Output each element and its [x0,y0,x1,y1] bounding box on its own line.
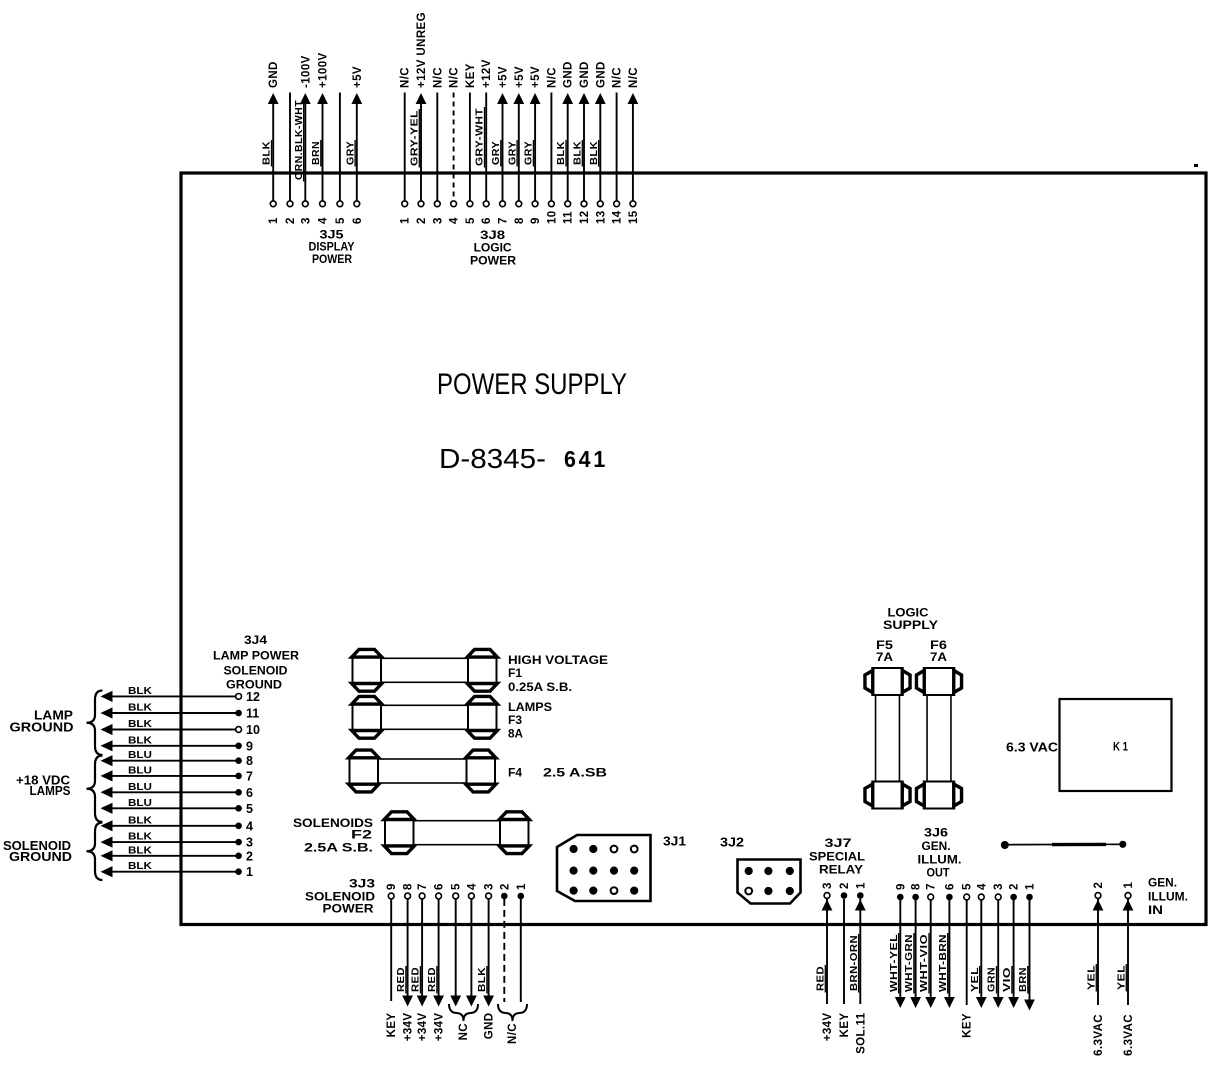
3J4 pin 3 lead (BLK) [101,831,254,850]
svg-text:6: 6 [944,883,956,890]
3J5 pin 4 lead (BRN, +100V) [310,52,330,224]
3J5 pin 1 lead (BLK, GND) [261,61,281,224]
svg-text:GROUND: GROUND [9,849,72,864]
general illumination input pin 1 lead (YEL, 6.3VAC) [1116,882,1136,1056]
svg-text:9: 9 [530,217,542,224]
svg-text:7A: 7A [876,650,893,664]
svg-text:4: 4 [318,217,330,224]
connector 3J2 body [738,860,801,904]
svg-text:2: 2 [1093,882,1105,889]
svg-text:9: 9 [895,883,907,890]
svg-text:3J1: 3J1 [663,835,686,849]
brace N/C group (3J3 pins 2-1) [498,1004,527,1021]
svg-text:2: 2 [499,883,511,890]
svg-text:8: 8 [514,217,526,224]
svg-text:BLK: BLK [128,718,152,730]
3J4 pin 7 lead (BLU) [101,764,254,783]
label GEN. ILLUM. IN [1148,878,1188,918]
svg-text:K 1: K 1 [1113,740,1128,754]
3J3 pin 2 lead [499,883,511,1002]
svg-text:3: 3 [993,883,1005,890]
svg-text:SPECIAL: SPECIAL [809,850,865,864]
label SOLENOIDS F2 2.5A S.B. [293,816,373,855]
svg-text:6: 6 [352,217,364,224]
svg-text:SOLENOID: SOLENOID [224,664,288,678]
label fuse F5 7A [876,638,893,664]
brace NC group (3J3 pins 5-4) [449,1004,478,1021]
svg-text:BLK: BLK [128,814,152,826]
3J4 pin 5 lead (BLU) [101,797,254,816]
svg-text:POWER: POWER [323,902,374,916]
svg-text:4: 4 [449,217,461,224]
svg-text:6.3VAC: 6.3VAC [1123,1014,1135,1056]
svg-text:F2: F2 [351,828,372,842]
svg-text:8: 8 [911,883,923,890]
svg-text:7: 7 [246,769,253,783]
svg-text:2.5A S.B.: 2.5A S.B. [304,841,373,855]
3J5 pin 3 lead (ORN.BLK-WHT, -100V) [293,55,313,224]
svg-text:4: 4 [246,819,253,833]
svg-text:+100V: +100V [318,52,330,88]
svg-text:BLK: BLK [128,702,152,714]
label +18 VDC LAMPS [16,773,71,799]
svg-text:1: 1 [1123,882,1135,889]
3J8 pin 7 lead (GRY, +5V) [490,66,510,224]
svg-text:11: 11 [246,707,259,721]
3J8 pin 3 lead (N/C) [432,67,444,224]
svg-text:3J4: 3J4 [244,633,267,647]
svg-text:NC: NC [458,1023,470,1040]
3J3 pin 4 lead [466,883,478,1007]
svg-text:2: 2 [285,217,297,224]
svg-text:+5V: +5V [530,66,542,88]
svg-text:GND: GND [595,61,607,88]
svg-text:2.5 A.SB: 2.5 A.SB [543,766,607,780]
svg-text:2: 2 [1009,883,1021,890]
svg-text:3J3: 3J3 [349,877,375,891]
svg-text:BLK: BLK [128,860,152,872]
svg-text:N/C: N/C [628,67,640,88]
svg-text:7A: 7A [930,650,947,664]
brace lamp ground group (3J4 pins 12-9) [87,691,103,756]
3J6 pin 1 lead (BRN) [1017,883,1037,1011]
3J6 pin 4 lead (YEL) [969,883,989,1008]
brace solenoid ground group (3J4 pins 4-1) [87,823,103,881]
3J4 pin 10 lead (BLK) [101,718,260,737]
svg-text:N/C: N/C [507,1023,519,1044]
svg-text:HIGH VOLTAGE: HIGH VOLTAGE [508,653,608,667]
svg-text:LAMPS: LAMPS [508,700,552,714]
svg-text:1: 1 [400,217,412,224]
svg-text:3: 3 [432,217,444,224]
svg-text:6: 6 [434,883,446,890]
svg-text:SOL.11: SOL.11 [855,1012,867,1054]
svg-text:RELAY: RELAY [819,863,863,877]
3J3 pin 9 lead (KEY) [386,883,398,1037]
label LOGIC SUPPLY [883,606,938,633]
3J8 pin 4 lead (N/C) [449,67,461,224]
svg-text:SUPPLY: SUPPLY [883,618,938,632]
svg-text:LAMPS: LAMPS [30,783,71,798]
svg-text:1: 1 [246,865,253,879]
svg-text:3J6: 3J6 [924,826,948,840]
3J4 pin 4 lead (BLK) [101,814,254,833]
3J8 pin 5 lead (KEY) [465,63,477,224]
3J5 pin 2 lead [285,93,297,225]
svg-text:5: 5 [962,883,974,890]
svg-text:IN: IN [1148,905,1163,917]
label F1 HIGH VOLTAGE 0.25A S.B. [508,653,608,694]
connector 3J8 name label [470,228,516,268]
svg-text:GEN.: GEN. [1148,878,1177,890]
svg-text:-100V: -100V [300,55,312,88]
3J6 pin 2 lead (VIO) [1001,883,1021,1008]
3J6 pin 7 lead (WHT-VIO) [918,883,938,1008]
3J8 pin 1 lead (N/C) [400,67,412,224]
fuse F2 (solenoids) [384,812,529,854]
3J6 pin 5 lead (KEY) [962,883,974,1038]
label F4 2.5 A.SB [508,766,607,780]
svg-text:10: 10 [246,723,260,737]
svg-text:12: 12 [579,210,591,224]
3J8 pin 9 lead (GRY, +5V) [523,66,543,224]
3J4 pin 1 lead (BLK) [101,860,254,879]
svg-text:BLU: BLU [128,749,152,761]
3J3 pin 7 lead (RED, +34V) [410,883,430,1041]
3J4 pin 9 lead (BLK) [101,734,254,753]
svg-text:+34V: +34V [417,1013,429,1042]
general illumination jumper wire with terminals [1001,841,1127,849]
stray mark near top-right corner [1194,164,1198,167]
svg-text:6: 6 [246,786,253,800]
3J6 pin 3 lead (GRN) [986,883,1006,1008]
3J4 pin 12 lead (BLK) [101,685,260,704]
svg-text:ILLUM.: ILLUM. [1148,892,1188,904]
svg-text:2: 2 [839,882,851,889]
svg-text:12: 12 [246,690,260,704]
svg-text:9: 9 [386,883,398,890]
3J1 contact pins [570,845,639,895]
fuse F4 [349,750,496,792]
3J8 pin 13 lead (BLK, GND) [588,61,608,224]
svg-text:F3: F3 [508,713,522,727]
fuse F1 (high voltage) [352,649,498,691]
svg-text:POWER: POWER [312,252,352,266]
svg-text:+34V: +34V [403,1013,415,1042]
svg-text:+34V: +34V [822,1013,834,1042]
3J6 pin 8 lead (WHT-GRN) [903,883,923,1008]
svg-text:1: 1 [268,217,280,224]
svg-text:13: 13 [595,210,607,224]
3J8 pin 2 lead (GRY-YEL, +12V UNREG) [409,12,429,224]
svg-text:1: 1 [855,882,867,889]
3J3 pin 6 lead (RED, +34V) [426,883,446,1041]
svg-text:1: 1 [1025,883,1037,890]
fuse F6 (logic supply) [916,668,961,809]
3J4 pin 2 lead (BLK) [101,844,254,863]
svg-text:+5V: +5V [498,66,510,88]
3J8 pin 8 lead (GRY, +5V) [506,66,526,224]
svg-text:5: 5 [246,802,253,816]
3J7 pin 2 lead (KEY) [839,882,851,1037]
svg-text:6.3VAC: 6.3VAC [1093,1014,1105,1056]
svg-text:+34V: +34V [434,1013,446,1042]
3J4 pin 11 lead (BLK) [101,702,260,721]
svg-text:BLK: BLK [128,844,152,856]
label LAMPS F3 8A [508,700,552,741]
svg-text:2: 2 [416,217,428,224]
svg-text:11: 11 [563,211,575,224]
general illumination input pin 2 lead (YEL, 6.3VAC) [1086,882,1106,1056]
svg-text:BLK: BLK [128,734,152,746]
svg-text:D-8345-: D-8345- [439,443,546,474]
svg-text:N/C: N/C [612,67,624,88]
svg-text:+12V: +12V [481,59,493,88]
3J8 pin 11 lead (BLK, GND) [555,61,575,224]
3J7 pin 3 lead (RED, +34V) [815,882,835,1041]
connector 3J4 name label [213,633,299,692]
svg-text:3: 3 [246,836,253,850]
3J4 pin 8 lead (BLU) [101,749,254,768]
svg-text:6: 6 [481,217,493,224]
svg-text:5: 5 [451,883,463,890]
3J5 pin 5 lead [335,93,347,225]
svg-text:GND: GND [268,61,280,88]
fuse F5 (logic supply) [865,668,910,809]
label SOLENOID GROUND [3,838,72,864]
3J7 pin 1 lead (BRN-ORN, SOL.11) [848,882,868,1054]
3J2 contact pins [745,867,794,895]
3J8 pin 14 lead (N/C) [612,67,624,224]
svg-text:F4: F4 [508,766,522,780]
svg-text:ILLUM.: ILLUM. [918,853,962,867]
svg-text:641: 641 [564,446,608,472]
3J8 pin 10 lead (N/C) [546,67,558,224]
svg-text:+5V: +5V [514,66,526,88]
svg-text:LOGIC: LOGIC [474,241,512,255]
svg-text:BLU: BLU [128,781,152,793]
svg-text:5: 5 [335,217,347,224]
svg-text:POWER SUPPLY: POWER SUPPLY [437,368,627,401]
svg-text:7: 7 [498,217,510,224]
power supply board outline [181,173,1206,925]
connector 3J1 body [557,835,651,901]
brace +18 VDC lamps group (3J4 pins 8-5) [87,756,103,823]
svg-text:KEY: KEY [465,63,477,88]
svg-text:KEY: KEY [386,1013,398,1038]
svg-text:POWER: POWER [470,254,516,268]
svg-text:GND: GND [563,61,575,88]
3J3 pin 3 lead (BLK, GND) [476,883,496,1039]
fuse F3 (lamps) [352,696,498,738]
svg-text:7: 7 [417,883,429,890]
svg-text:F1: F1 [508,666,522,680]
svg-text:2: 2 [246,849,253,863]
svg-text:10: 10 [546,210,558,224]
3J8 pin 15 lead (N/C) [628,67,640,224]
3J4 pin 6 lead (BLU) [101,781,254,800]
3J3 pin 1 lead [516,883,528,1002]
svg-text:3: 3 [484,883,496,890]
3J3 pin 5 lead [450,883,462,1007]
svg-text:4: 4 [976,883,988,890]
svg-text:3: 3 [300,217,312,224]
svg-text:KEY: KEY [962,1013,974,1038]
svg-text:GEN.: GEN. [922,839,951,853]
svg-text:1: 1 [516,883,528,890]
svg-text:7: 7 [926,883,938,890]
svg-text:+5V: +5V [352,66,364,88]
svg-text:15: 15 [628,210,640,224]
svg-text:3J7: 3J7 [825,836,852,850]
svg-text:KEY: KEY [839,1013,851,1038]
svg-text:8: 8 [403,883,415,890]
svg-text:LAMP POWER: LAMP POWER [213,649,299,663]
svg-text:GROUND: GROUND [10,720,74,735]
svg-text:4: 4 [466,883,478,890]
svg-text:GND: GND [579,61,591,88]
svg-text:9: 9 [246,739,253,753]
svg-text:8: 8 [246,754,253,768]
3J8 pin 6 lead (GRY-WHT, +12V) [474,59,494,224]
svg-text:BLK: BLK [128,685,152,697]
svg-text:3J2: 3J2 [720,836,744,850]
connector 3J7 name label [809,836,865,877]
3J8 pin 12 lead (BLK, GND) [572,61,592,224]
svg-text:BLK: BLK [128,831,152,843]
connector 3J3 name label [305,877,375,916]
svg-text:N/C: N/C [432,67,444,88]
svg-text:8A: 8A [508,727,523,741]
3J6 pin 9 lead (WHT-YEL) [888,883,908,1008]
label fuse F6 7A [930,638,947,664]
connector 3J5 name label [309,228,355,267]
relay K1 [1060,699,1172,791]
svg-text:N/C: N/C [449,67,461,88]
svg-text:3: 3 [822,882,834,889]
svg-text:BLU: BLU [128,764,152,776]
svg-text:14: 14 [612,210,624,224]
svg-text:0.25A S.B.: 0.25A S.B. [508,680,572,694]
svg-text:N/C: N/C [546,67,558,88]
svg-text:N/C: N/C [400,67,412,88]
3J3 pin 8 lead (RED, +34V) [395,883,415,1041]
svg-text:5: 5 [465,217,477,224]
label LAMP GROUND [10,708,74,735]
svg-text:6.3 VAC: 6.3 VAC [1006,741,1058,755]
svg-text:OUT: OUT [927,866,951,880]
3J6 pin 6 lead (WHT-BRN) [937,883,957,1008]
3J5 pin 6 lead (GRY, +5V) [344,66,364,224]
svg-text:GND: GND [484,1013,496,1040]
connector 3J6 name label [918,826,962,880]
svg-text:+12V UNREG: +12V UNREG [416,12,428,88]
svg-text:BLU: BLU [128,797,152,809]
